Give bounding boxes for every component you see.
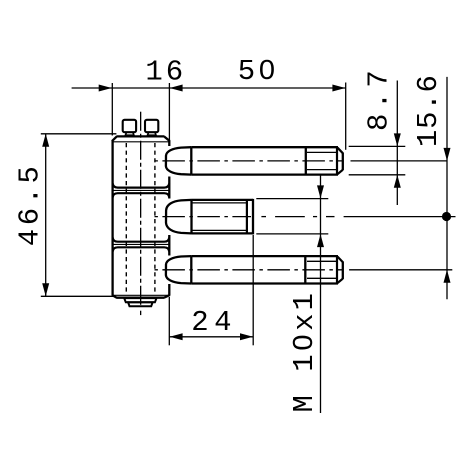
svg-text:M 10x1: M 10x1 <box>288 290 321 412</box>
hidden bore line right <box>154 143 156 295</box>
extension line at body right x169 <box>168 83 170 141</box>
dimension 15.6 far right <box>446 77 448 299</box>
arrow 15.6 up <box>444 270 451 283</box>
svg-text:46.5: 46.5 <box>13 163 46 247</box>
extension line at pin tip x345.7 <box>345 83 347 150</box>
dimension line top (16 and 50) <box>72 87 346 89</box>
junction dot 15.6 at middle centerline <box>442 212 451 221</box>
arrow 46.5 down <box>42 283 49 296</box>
middle pin thread runout line <box>246 200 248 234</box>
bottom pin end face <box>342 262 344 280</box>
svg-text:50: 50 <box>238 55 279 88</box>
hinge body bottom <box>112 295 170 298</box>
arrow 50 right <box>332 85 345 92</box>
top pin thread minor lines <box>307 152 336 169</box>
screw stem right <box>148 132 157 135</box>
bottom pin shoulder <box>304 256 306 283</box>
top pin shaft edges <box>191 147 338 174</box>
arrow M10x1 up <box>317 234 324 247</box>
top pin bell end <box>190 147 192 174</box>
middle pin thread minor lines <box>192 203 246 231</box>
svg-text:16: 16 <box>145 55 186 88</box>
arrow shared 16 right / 50 left <box>170 85 183 92</box>
bottom pin thread runout line <box>336 256 338 283</box>
hinge body top cap <box>112 136 170 141</box>
extension line at body left x112 <box>111 83 113 136</box>
dimension 46.5 left <box>41 134 117 296</box>
svg-text:24: 24 <box>191 306 237 339</box>
centerline bottom pin <box>155 269 453 271</box>
centerline middle pin <box>155 216 456 218</box>
bottom pin thread minor lines <box>307 261 336 278</box>
bottom pin bell <box>166 256 191 283</box>
bottom pin chamfer <box>338 257 343 283</box>
dimension 8.7 right <box>349 81 406 206</box>
arrow 46.5 up <box>42 134 49 147</box>
hidden bore line left <box>125 143 127 295</box>
dimension 24 bottom <box>169 235 253 345</box>
arrow 16 left outside <box>99 85 112 92</box>
bottom pin shaft edges <box>191 256 338 283</box>
middle pin edges <box>192 200 254 234</box>
arrow 8.7 up <box>394 175 401 188</box>
centerline top pin <box>155 160 448 162</box>
svg-text:8.7: 8.7 <box>362 66 395 131</box>
hinge body bottom tangent line <box>113 294 170 296</box>
middle pin bell end <box>190 200 192 234</box>
hinge body left edge <box>111 141 113 296</box>
bottom plug tier 2 <box>128 302 153 306</box>
screw stem left <box>125 132 133 135</box>
knuckle joint 2 <box>113 238 170 252</box>
arrow M10x1 down <box>317 185 324 198</box>
arrow 8.7 down <box>394 133 401 146</box>
top pin chamfer <box>338 148 343 174</box>
screw head left <box>123 120 136 132</box>
arrow 15.6 down <box>444 148 451 161</box>
top pin end face <box>342 153 344 171</box>
hinge body top tangent line <box>113 141 170 143</box>
screw head right <box>145 120 158 132</box>
dimension M 10x1 leader <box>256 176 328 414</box>
top pin bell <box>166 147 191 174</box>
arrow 24 left <box>170 333 183 340</box>
top pin shoulder <box>305 147 307 174</box>
top pin thread runout line <box>336 147 338 174</box>
middle pin end face <box>252 199 254 235</box>
knuckle joint 1 <box>113 183 170 197</box>
hinge body right edge segments <box>168 141 170 296</box>
bottom pin bell end <box>190 256 192 283</box>
arrow 24 right <box>240 333 253 340</box>
centerline body vertical <box>140 112 142 315</box>
middle pin bell <box>166 200 192 234</box>
bottom plug tier 1 <box>124 298 156 302</box>
svg-text:15.6: 15.6 <box>412 74 445 147</box>
